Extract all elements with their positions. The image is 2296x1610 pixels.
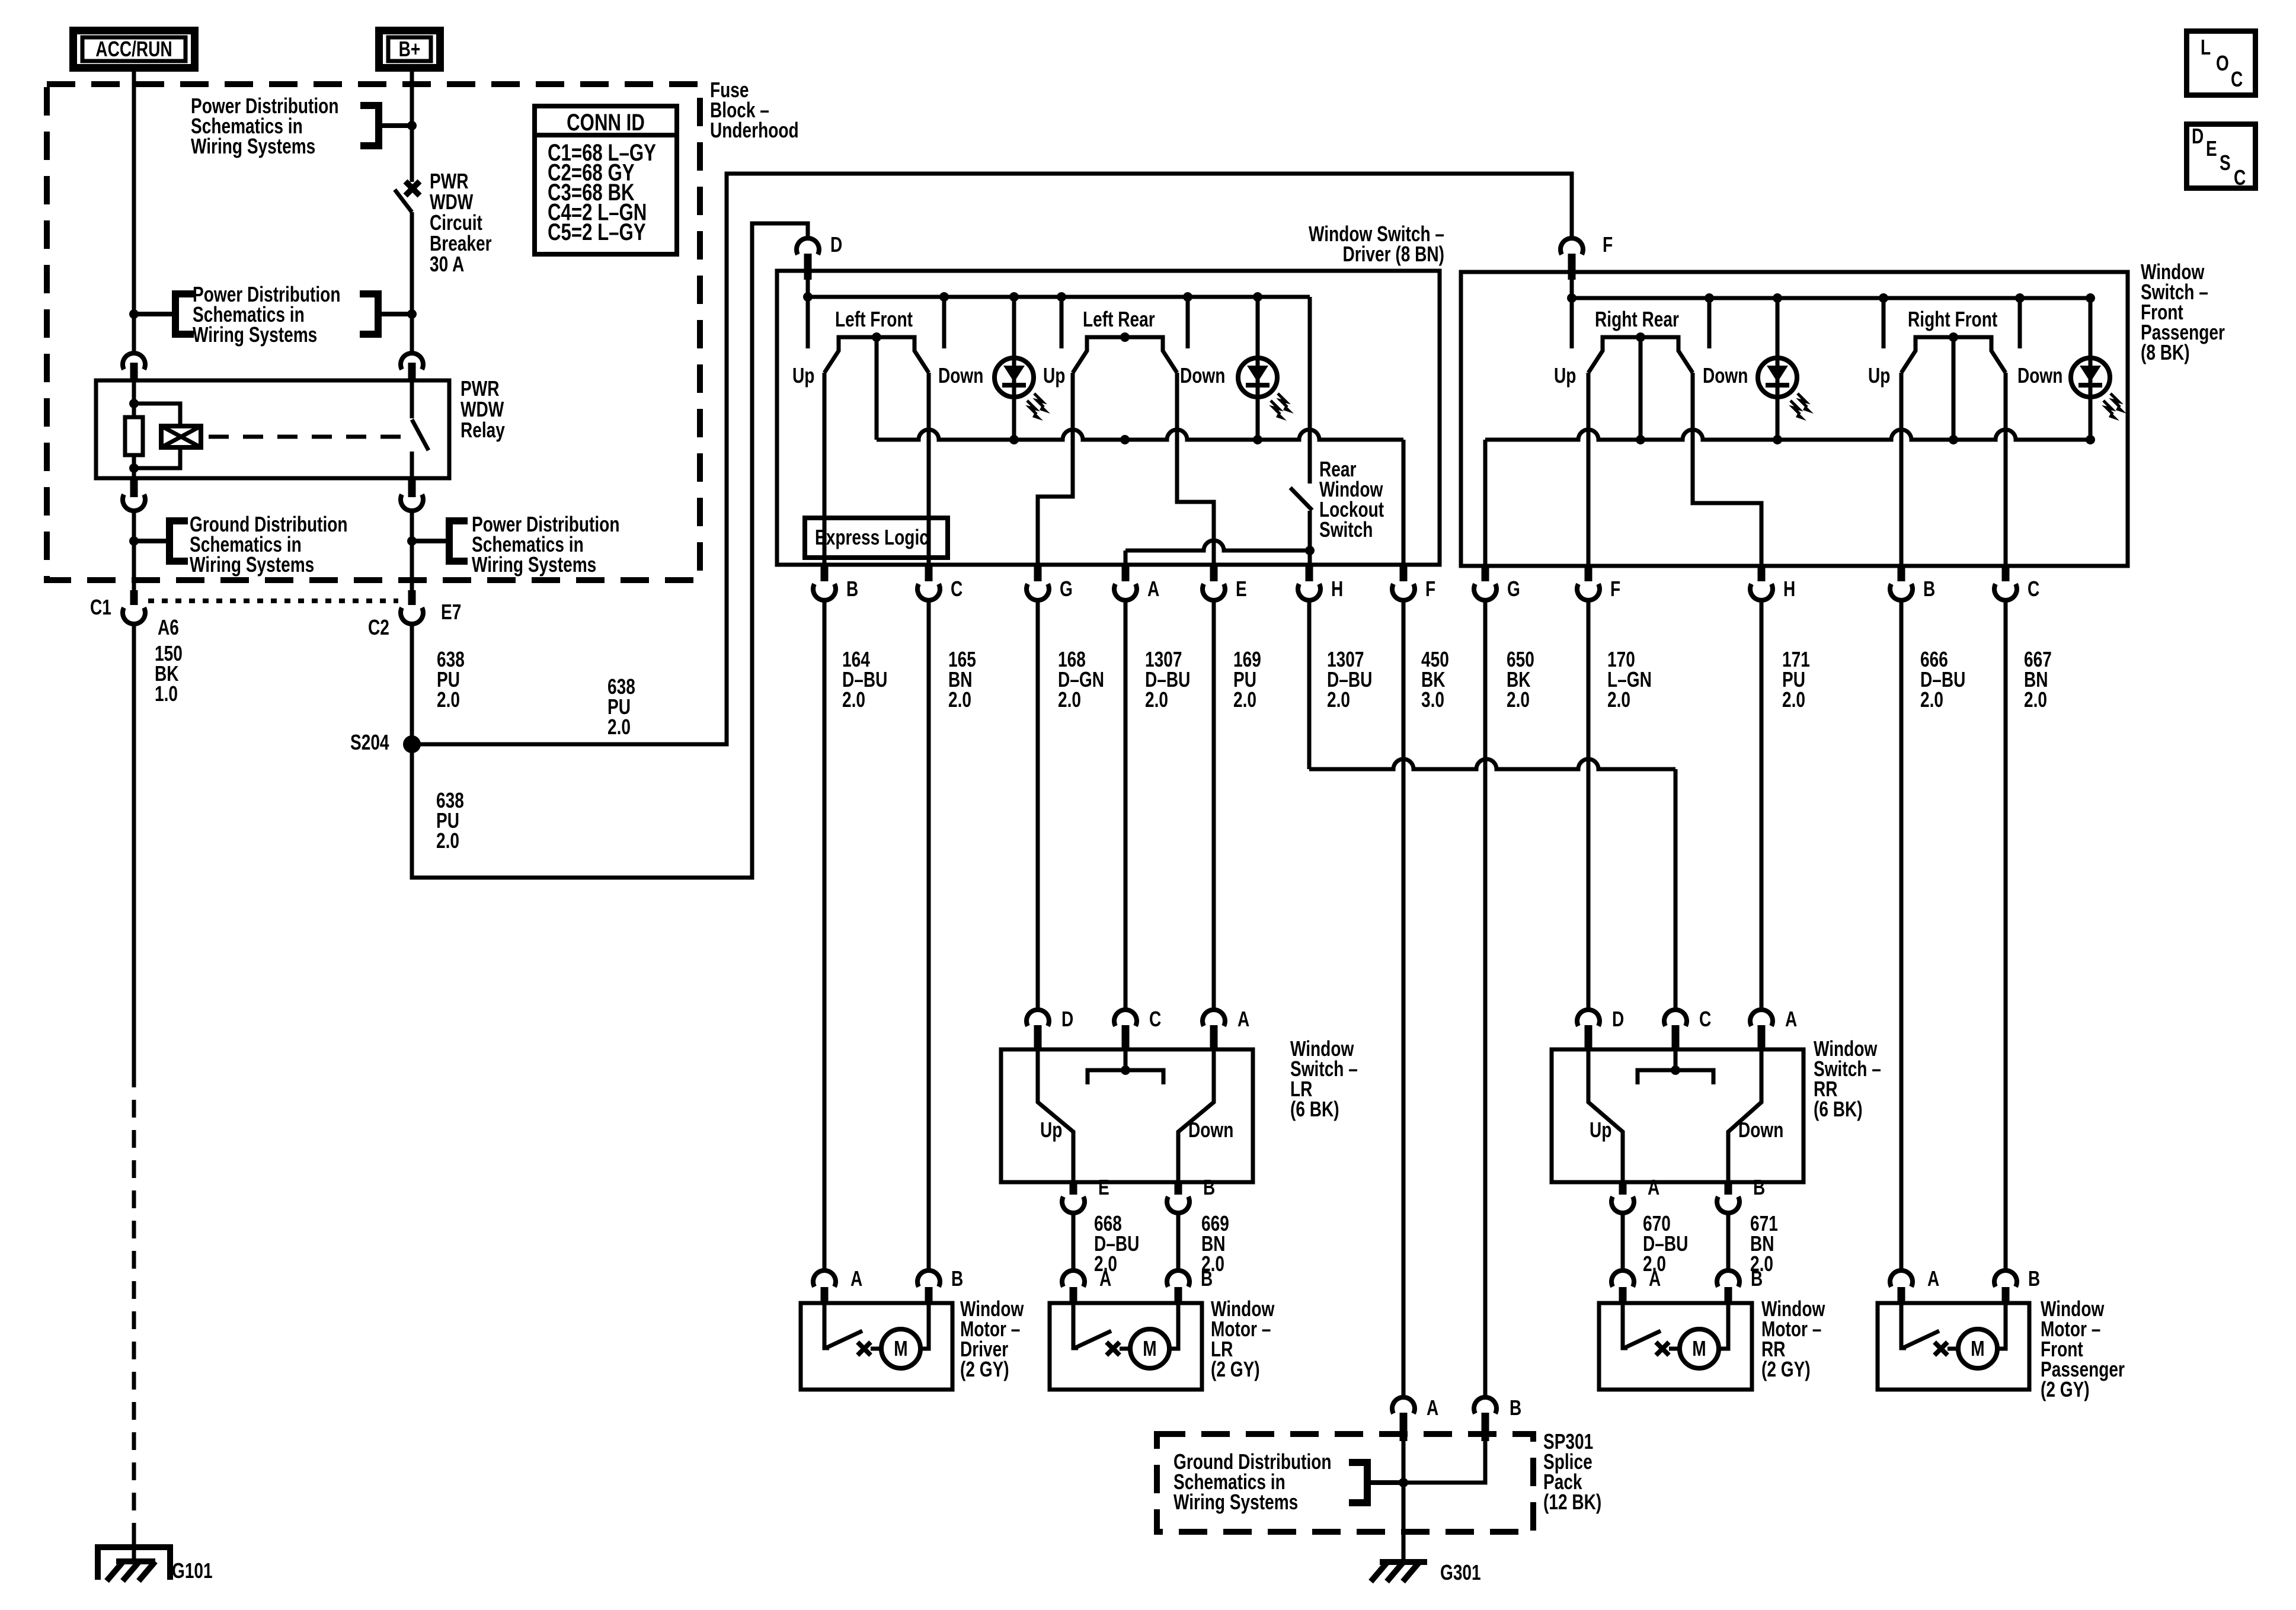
svg-text:H: H [1783, 577, 1795, 601]
rear switch connector D [1577, 1010, 1600, 1026]
svg-text:A: A [1927, 1267, 1939, 1291]
svg-text:A: A [1099, 1267, 1111, 1291]
wire 1307 D-BU (H to RR switch C) [1307, 602, 1312, 769]
LR switch bottom connectors E B [1070, 1182, 1077, 1195]
svg-text:B: B [1203, 1176, 1215, 1199]
fuse block underhood dashed outline [47, 84, 700, 580]
junction dot B+ distribution [407, 309, 417, 319]
svg-text:E: E [2206, 137, 2217, 161]
node ACC/RUN (ignition feed box) [73, 31, 195, 68]
window motor box [1599, 1303, 1752, 1390]
svg-text:C: C [2234, 166, 2246, 190]
driver switch bottom connectors B C G A E H F [821, 565, 829, 581]
wire 638 PU S204 to F feed [412, 174, 1572, 744]
reference bracket right to B+ wire [360, 290, 378, 297]
wire 638 PU S204 to D feed [412, 223, 808, 878]
tab LOC box [2187, 31, 2256, 95]
wire 168 D-GN (G to LR switch D) [1036, 602, 1040, 1010]
rear switch connector A [1750, 1010, 1773, 1026]
rear switch connector C [1114, 1010, 1137, 1026]
reference bracket to B+ wire power distribution [449, 517, 468, 524]
window motor internal switch and motor M [1073, 1303, 1078, 1348]
window motor connector B arc [917, 1270, 940, 1286]
relay coil resistor branch [132, 380, 136, 417]
svg-text:Down: Down [938, 364, 983, 388]
svg-text:S: S [2220, 151, 2231, 175]
svg-text:C: C [1149, 1007, 1161, 1031]
svg-text:A: A [1649, 1267, 1661, 1291]
switch Left Front [806, 297, 810, 348]
relay actuation dashed link [209, 435, 407, 439]
junction dot ground distribution [129, 536, 139, 546]
driver internal bus line [875, 337, 879, 440]
svg-text:E7: E7 [441, 600, 461, 624]
window motor connector A arc [1890, 1270, 1913, 1286]
svg-text:M: M [894, 1337, 907, 1361]
connector C1 [130, 590, 138, 605]
svg-text:ACC/RUN: ACC/RUN [95, 37, 172, 61]
svg-text:S204: S204 [350, 731, 389, 754]
svg-text:A: A [1237, 1007, 1249, 1031]
wire ACC to C1 [132, 512, 136, 590]
svg-text:Left Rear: Left Rear [1083, 308, 1155, 331]
wire 671 BN [1726, 1213, 1731, 1271]
svg-text:C: C [2231, 68, 2243, 91]
svg-text:PWRWDWRelay: PWRWDWRelay [461, 377, 505, 442]
window motor internal switch and motor M [824, 1303, 829, 1348]
rear switch common contact bar [1674, 1050, 1678, 1070]
rear switch connector D [1027, 1010, 1049, 1026]
svg-text:A: A [1648, 1176, 1659, 1199]
wire 669 BN [1176, 1213, 1181, 1271]
svg-text:M: M [1692, 1337, 1706, 1361]
driver switch feed bus [806, 280, 810, 297]
LED left rear down indicator [1256, 297, 1260, 440]
svg-text:G: G [1507, 577, 1520, 601]
splice S204 [403, 735, 421, 753]
rear switch common contact bar [1124, 1050, 1128, 1070]
svg-text:B: B [2028, 1267, 2040, 1291]
svg-text:F: F [1425, 577, 1435, 601]
svg-text:M: M [1971, 1337, 1984, 1361]
wire splice pack ground [1402, 1441, 1406, 1560]
svg-text:A: A [1785, 1007, 1797, 1031]
svg-text:C2: C2 [368, 616, 389, 639]
svg-text:A6: A6 [158, 616, 179, 639]
svg-text:Right Front: Right Front [1908, 308, 1997, 331]
window motor connector B arc [1717, 1270, 1739, 1286]
wire splice pack B branch [1403, 1441, 1485, 1483]
window motor internal switch and motor M [1901, 1303, 1906, 1348]
reference bracket splice pack [1349, 1459, 1367, 1466]
wire 150 BK solid part [132, 626, 136, 1070]
svg-text:D: D [830, 233, 842, 257]
relay connector arc ACC side [123, 353, 145, 369]
block Window Switch - Driver box [777, 271, 1440, 565]
reference bracket to power distribution schematics [360, 102, 379, 109]
window motor box [1050, 1303, 1202, 1390]
switch Right Front [1882, 298, 1886, 348]
wire 169 PU (E to LR switch A) [1212, 602, 1216, 1010]
ground G101 [98, 1547, 170, 1580]
wire 164 D-BU (B to driver motor) [823, 602, 827, 1271]
rear window lockout switch [1308, 297, 1312, 484]
svg-text:A: A [1147, 577, 1159, 601]
svg-text:CONN ID: CONN ID [567, 109, 645, 136]
window motor connector A arc [1611, 1270, 1634, 1286]
relay output connector B+ side [408, 478, 416, 497]
svg-text:B: B [1753, 1176, 1765, 1199]
window motor connector A arc [1062, 1270, 1085, 1286]
wire 450 BK (F to splice pack A) [1402, 602, 1406, 1397]
wire 667 BN (C to passenger motor) [2004, 602, 2008, 1271]
svg-text:B: B [1510, 1396, 1521, 1420]
rear switch box [1552, 1049, 1803, 1182]
window motor box [1878, 1303, 2029, 1390]
svg-text:Down: Down [1738, 1118, 1783, 1142]
svg-text:E: E [1098, 1176, 1109, 1199]
window motor connector B arc [1994, 1270, 2017, 1286]
block Express Logic [805, 518, 948, 558]
switch Right Rear [1570, 298, 1574, 348]
svg-text:Right Rear: Right Rear [1595, 308, 1679, 331]
passenger switch bottom connectors G F H B C [1482, 565, 1489, 581]
svg-text:Up: Up [1554, 364, 1576, 388]
wire 670 D-BU [1621, 1213, 1625, 1271]
driver internal line to A [1125, 540, 1310, 550]
ground G301 [1380, 1559, 1427, 1565]
reference bracket to ACC wire ground distribution [170, 517, 188, 524]
svg-text:L: L [2201, 36, 2211, 59]
svg-text:Up: Up [1590, 1118, 1611, 1142]
block Window Switch - Front Passenger box [1461, 272, 2128, 566]
connector C2 [408, 590, 416, 605]
relay coil winding symbol [134, 404, 180, 426]
svg-text:D: D [1061, 1007, 1073, 1031]
rear switch down contact [1728, 1050, 1761, 1182]
svg-text:C: C [1699, 1007, 1711, 1031]
svg-text:B: B [1923, 577, 1935, 601]
svg-text:B: B [1751, 1267, 1763, 1291]
svg-text:Down: Down [1703, 364, 1748, 388]
svg-text:Down: Down [1188, 1118, 1233, 1142]
splice pack SP301 dashed box [1157, 1434, 1533, 1532]
relay switch contact [410, 380, 414, 418]
svg-text:B: B [951, 1267, 963, 1291]
left rear switch legs to G and E [1038, 373, 1073, 565]
table CONN ID [535, 106, 677, 254]
wire 150 BK dashed part to G101 [132, 1070, 136, 1536]
svg-text:Up: Up [1868, 364, 1890, 388]
connector D driver switch [797, 238, 819, 254]
rear switch connector C [1664, 1010, 1687, 1026]
connector B splice pack [1474, 1397, 1496, 1413]
wire 171 PU (H to RR switch A) [1760, 602, 1764, 1010]
right front switch legs to B and C [1900, 373, 1904, 565]
reference bracket left to ACC/RUN wire [175, 290, 194, 297]
junction dot power distribution lower [407, 536, 417, 546]
svg-text:F: F [1610, 577, 1620, 601]
wire 650 BK (G to splice pack B) [1483, 602, 1488, 1397]
svg-text:Up: Up [1040, 1118, 1062, 1142]
wire B+ feed upper [410, 72, 414, 182]
svg-text:Down: Down [2017, 364, 2062, 388]
wire 1307 D-BU (A to LR switch C) [1124, 602, 1128, 1010]
relay connector arc B+ side [401, 353, 423, 369]
svg-text:Express Logic: Express Logic [815, 526, 929, 549]
rear switch down contact [1178, 1050, 1214, 1182]
svg-text:A: A [850, 1267, 862, 1291]
svg-text:D: D [2192, 124, 2204, 148]
wire B+ to C2 [410, 512, 414, 590]
connector F passenger switch [1560, 238, 1583, 254]
svg-text:H: H [1331, 577, 1343, 601]
relay output connector ACC side [130, 478, 138, 497]
passenger internal bus line to G [1485, 430, 2090, 440]
relay PWR WDW box [96, 380, 449, 478]
svg-text:C1: C1 [90, 596, 111, 619]
svg-text:Up: Up [1043, 364, 1065, 388]
wire 668 D-BU [1072, 1213, 1076, 1271]
rear switch up contact [1038, 1050, 1073, 1182]
svg-text:E: E [1236, 577, 1247, 601]
tab DESC box [2187, 124, 2256, 188]
window motor internal switch and motor M [1623, 1303, 1627, 1348]
LED left front down indicator [1012, 297, 1016, 440]
right rear switch legs to F and H [1587, 373, 1591, 565]
svg-text:B+: B+ [399, 37, 421, 61]
wire 638 PU from C2 to S204 [410, 626, 414, 744]
svg-text:G101: G101 [172, 1559, 213, 1583]
rear switch connector A [1203, 1010, 1225, 1026]
svg-text:D: D [1612, 1007, 1624, 1031]
rear switch up contact [1588, 1050, 1623, 1182]
svg-text:B: B [846, 577, 858, 601]
svg-text:A: A [1427, 1396, 1438, 1420]
junction dot ACC/RUN distribution [129, 309, 139, 319]
junction dot B+/power distribution [407, 121, 417, 130]
LED right rear down indicator [1776, 298, 1780, 440]
svg-text:Left Front: Left Front [835, 308, 913, 331]
node B+ (battery feed box) [379, 31, 440, 68]
LED right front down indicator [2071, 358, 2110, 397]
window motor box [801, 1303, 952, 1390]
passenger switch feed bus [1570, 280, 1574, 298]
window motor connector B arc [1167, 1270, 1189, 1286]
svg-text:C: C [2028, 577, 2039, 601]
switch Left Rear [1060, 297, 1064, 348]
svg-text:F: F [1603, 233, 1613, 257]
svg-text:G301: G301 [1440, 1561, 1481, 1585]
wire 170 L-GN (F to RR switch D) [1587, 602, 1591, 1010]
RR switch bottom connectors A B [1619, 1182, 1627, 1195]
window motor connector A arc [813, 1270, 836, 1286]
wire 666 D-BU (B to passenger motor) [1900, 602, 1904, 1271]
circuit breaker PWR WDW 30A [405, 181, 420, 196]
rear switch box [1001, 1049, 1253, 1182]
svg-text:C: C [951, 577, 962, 601]
connector A splice pack [1392, 1397, 1415, 1413]
connector row dotted line [148, 598, 398, 603]
svg-text:O: O [2216, 52, 2229, 75]
svg-text:M: M [1143, 1337, 1156, 1361]
svg-text:Down: Down [1180, 364, 1225, 388]
left front switch legs to B and C [823, 373, 827, 565]
wire 165 BN (C to driver motor) [927, 602, 931, 1271]
wire ACC/RUN feed [132, 72, 136, 351]
svg-text:B: B [1201, 1267, 1213, 1291]
svg-text:Up: Up [792, 364, 814, 388]
svg-text:G: G [1060, 577, 1073, 601]
